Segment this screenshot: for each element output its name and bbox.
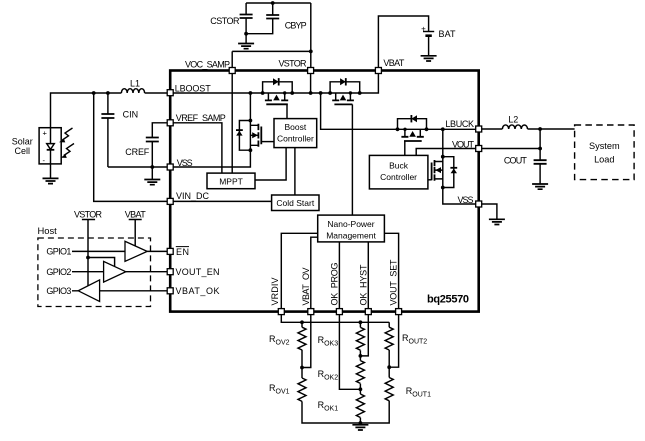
svg-text:LBOOST: LBOOST	[175, 83, 212, 93]
svg-text:BAT: BAT	[439, 29, 457, 39]
svg-text:VSS: VSS	[177, 158, 193, 168]
svg-text:CSTOR: CSTOR	[210, 16, 240, 26]
svg-text:VSS: VSS	[458, 195, 474, 205]
svg-text:VOUT: VOUT	[452, 139, 475, 149]
svg-text:VBAT_OK: VBAT_OK	[176, 286, 220, 296]
svg-text:L1: L1	[130, 79, 140, 89]
svg-text:VBAT: VBAT	[125, 210, 147, 220]
svg-text:MPPT: MPPT	[219, 176, 243, 186]
svg-text:OK_PROG: OK_PROG	[329, 263, 339, 306]
svg-text:Controller: Controller	[380, 172, 417, 182]
svg-text:VSTOR: VSTOR	[279, 59, 308, 69]
svg-text:Buck: Buck	[389, 160, 409, 170]
svg-text:VBAT: VBAT	[383, 58, 405, 68]
svg-text:VOUT_SET: VOUT_SET	[389, 259, 399, 306]
svg-text:Solar: Solar	[12, 136, 33, 146]
svg-text:GPIO1: GPIO1	[46, 247, 71, 257]
svg-text:bq25570: bq25570	[427, 294, 469, 306]
svg-text:OK_HYST: OK_HYST	[358, 264, 368, 306]
svg-text:VOUT_EN: VOUT_EN	[176, 267, 220, 277]
svg-text:VIN_DC: VIN_DC	[176, 191, 210, 201]
svg-text:Cell: Cell	[15, 146, 31, 156]
svg-text:+: +	[421, 25, 426, 34]
svg-text:Boost: Boost	[285, 122, 307, 132]
svg-text:+: +	[43, 129, 48, 138]
svg-text:LBUCK: LBUCK	[445, 119, 474, 129]
svg-text:Load: Load	[594, 154, 614, 164]
svg-text:VBAT_OV: VBAT_OV	[301, 268, 311, 306]
svg-text:Host: Host	[38, 225, 58, 236]
svg-text:GPIO2: GPIO2	[46, 267, 71, 277]
svg-text:COUT: COUT	[504, 156, 528, 166]
svg-text:VOC_SAMP: VOC_SAMP	[185, 59, 230, 69]
svg-text:CREF: CREF	[125, 147, 150, 157]
svg-text:Cold Start: Cold Start	[276, 198, 314, 208]
svg-text:Controller: Controller	[277, 134, 314, 144]
svg-text:Nano-Power: Nano-Power	[327, 219, 374, 229]
svg-text:L2: L2	[508, 115, 518, 125]
svg-text:Management: Management	[326, 230, 376, 240]
svg-text:CIN: CIN	[123, 109, 139, 119]
svg-text:VREF_SAMP: VREF_SAMP	[176, 113, 226, 123]
svg-text:VSTOR: VSTOR	[74, 210, 103, 220]
svg-text:System: System	[589, 141, 620, 151]
svg-text:VRDIV: VRDIV	[270, 278, 280, 306]
svg-text:GPIO3: GPIO3	[46, 286, 71, 296]
svg-text:CBYP: CBYP	[285, 21, 307, 31]
svg-text:EN: EN	[176, 247, 189, 257]
